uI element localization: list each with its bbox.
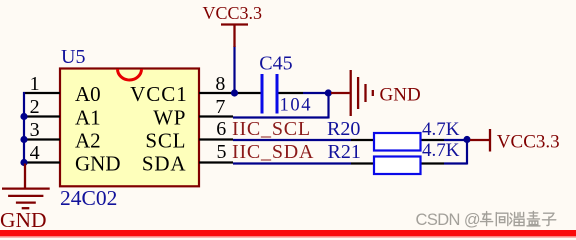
svg-text:A0: A0 [75,82,101,106]
svg-text:GND: GND [380,85,421,106]
svg-text:SDA: SDA [142,152,186,176]
svg-text:WP: WP [153,106,186,130]
svg-text:24C02: 24C02 [60,186,117,210]
svg-text:R20: R20 [327,118,360,140]
svg-text:2: 2 [30,96,40,118]
svg-text:CSDN @: CSDN @ [416,211,481,229]
svg-text:U5: U5 [61,46,85,68]
svg-text:4.7K: 4.7K [422,140,460,161]
svg-text:5: 5 [217,141,227,163]
svg-text:GND: GND [0,208,47,232]
svg-text:VCC1: VCC1 [130,82,188,106]
svg-text:GND: GND [75,152,121,176]
svg-text:4.7K: 4.7K [422,119,460,140]
svg-text:1: 1 [30,73,40,95]
svg-text:VCC3.3: VCC3.3 [497,132,560,153]
svg-text:A1: A1 [75,106,101,130]
svg-text:3: 3 [30,119,40,141]
svg-text:4: 4 [30,142,40,164]
svg-text:IIC_SDA: IIC_SDA [232,141,314,163]
svg-text:IIC_SCL: IIC_SCL [232,118,311,140]
svg-text:SCL: SCL [145,129,186,153]
svg-text:A2: A2 [75,129,101,153]
svg-text:7: 7 [215,96,225,118]
svg-text:R21: R21 [328,141,361,163]
svg-text:C45: C45 [259,52,292,74]
svg-text:VCC3.3: VCC3.3 [203,3,263,23]
svg-text:6: 6 [216,118,226,140]
svg-text:8: 8 [215,73,225,95]
svg-text:104: 104 [280,95,313,115]
